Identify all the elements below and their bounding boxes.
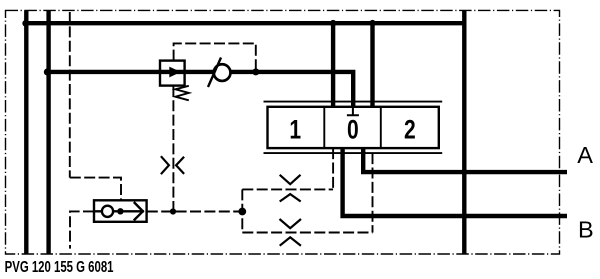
node: junction pilot to P: [252, 68, 259, 75]
pilot line: dashed corner to shuttle top: [70, 178, 121, 200]
shuttle valve S1: seat dot: [117, 208, 123, 214]
valve block: outline: [268, 107, 439, 148]
valve block: top rail: [264, 101, 443, 103]
pilot line: LS bridge lower horizontal: [242, 232, 372, 234]
svg-text:2: 2: [404, 115, 416, 145]
svg-text:B: B: [578, 217, 594, 243]
shuttle valve S1: ball: [102, 206, 113, 217]
orifice O1 (vertical line): [161, 156, 169, 174]
wire: valve port stub left to top bus: [331, 23, 335, 107]
pilot line: shuttle left port to drain: [70, 211, 94, 248]
node: junction P start: [44, 68, 51, 75]
shuttle valve S1: arrow chevron: [134, 202, 143, 220]
wire: P supply horizontal with drop into valve center: [49, 72, 354, 107]
valve block: divider 1/0: [323, 107, 325, 148]
node: LS junction left: [170, 208, 176, 214]
shuttle valve S1: body: [94, 200, 147, 222]
relief valve U1: pilot dashed loop over: [174, 43, 256, 72]
pilot line: port drop right dashed: [372, 153, 374, 232]
wire: work port A line: [363, 148, 567, 172]
pilot line: dashed from enclosure top down: [69, 12, 71, 178]
wire: pump line P vertical left: [46, 10, 50, 254]
node: junction bus stub right: [369, 20, 376, 27]
shuttle valve S1: flow line: [95, 210, 144, 212]
node: junction bus stub left: [330, 20, 337, 27]
wire: top bus: [24, 21, 464, 25]
check valve V1: ball circle: [214, 64, 231, 81]
wire: tank line T0 vertical left: [24, 10, 28, 254]
valve block: bottom rail: [264, 152, 443, 154]
orifice O2 (upper horizontal line): [280, 175, 301, 184]
relief valve U1: body: [160, 61, 185, 86]
svg-text:PVG 120 155 G 6081: PVG 120 155 G 6081: [5, 258, 114, 275]
pilot line: relief valve drain down to LS: [172, 86, 174, 212]
relief valve U1: spring: [175, 86, 188, 101]
svg-text:0: 0: [347, 115, 359, 145]
node: LS junction right: [238, 208, 246, 216]
check valve V1: seat line: [208, 58, 221, 88]
pilot line: shuttle right port LS: [147, 211, 243, 213]
wire: tank return vertical right: [462, 10, 466, 254]
wire: valve port stub right to top bus: [370, 23, 374, 107]
node: junction top-left: [22, 20, 29, 27]
relief valve U1: flow arrow: [160, 71, 170, 74]
valve block: blocked port symbol: [347, 107, 359, 115]
pilot line: LS bridge vertical: [241, 189, 243, 232]
svg-text:A: A: [577, 142, 593, 168]
svg-text:1: 1: [289, 115, 301, 145]
orifice O3 (lower horizontal line): [280, 219, 302, 228]
valve block: divider 0/2: [380, 107, 382, 148]
wire: work port B line: [343, 148, 567, 216]
pilot line: LS bridge upper horizontal: [242, 188, 333, 190]
pilot line: port drop left dashed: [332, 148, 334, 189]
